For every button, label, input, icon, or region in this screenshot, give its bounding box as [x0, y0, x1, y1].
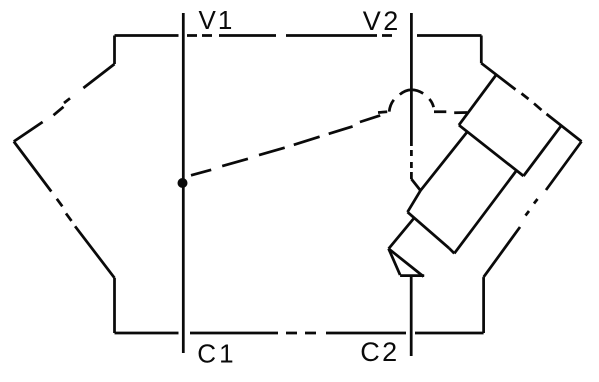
fold line C2 (lower part of V2 line): [410, 277, 413, 357]
fold line V2 (upper part, dashed where marker overlaps): [410, 13, 413, 179]
marker neck bottom edge: [389, 249, 424, 277]
svg-text:C1: C1: [197, 339, 236, 369]
svg-text:V1: V1: [199, 5, 235, 35]
marker tip left edge: [389, 249, 401, 275]
marker cap bottom-left edge: [459, 125, 524, 176]
svg-text:V2: V2: [363, 6, 401, 36]
fold line V1: [182, 13, 185, 353]
blank top-right step: [480, 36, 483, 64]
marker body end face / neck top edge: [408, 212, 450, 248]
blank upper-left edge (chain dashed): [14, 64, 115, 142]
marker body to neck step: [449, 248, 454, 253]
marker cap top-left edge: [459, 76, 496, 126]
marker cap bottom-right edge: [524, 126, 562, 176]
marker body right edge: [454, 171, 516, 254]
blank top edge (score line, dashed between V1 and V2): [115, 34, 482, 37]
marker body left edge: [408, 132, 467, 212]
crossing arc over V2 (dashed semicircle): [389, 90, 433, 112]
fold line V2 bevel into marker outline: [411, 179, 420, 191]
blank upper-right edge (chain dashed, shared with marker cap top edge): [481, 63, 581, 141]
blank lower-right edge (chain dashed): [484, 142, 582, 278]
blank bottom edge (score line, dashed between C1 and C2): [115, 332, 484, 335]
tear line short dash before arc: [378, 110, 387, 113]
tear line (long dashes from dot to arc): [191, 115, 380, 175]
blank top-left step: [113, 36, 116, 65]
marker neck left edge: [389, 218, 414, 248]
tear line dashes right of arc: [434, 112, 467, 113]
marker tip flat bottom: [400, 274, 424, 277]
blank lower-left edge (chain dashed): [14, 142, 115, 278]
junction dot on V1: [178, 178, 188, 188]
blank bottom-right step: [482, 277, 485, 333]
blank bottom-left step: [113, 278, 116, 333]
svg-text:C2: C2: [360, 337, 400, 367]
